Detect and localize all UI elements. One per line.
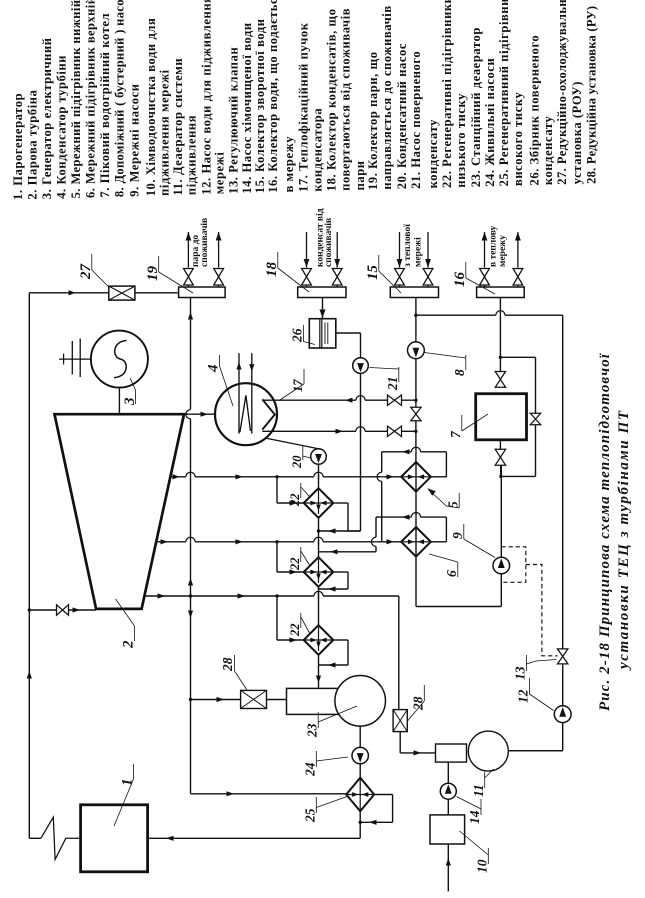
hop hat6 left over ext2: [374, 537, 378, 546]
RPNT1 inner arrow: [318, 490, 320, 514]
svg-text:в теплову: в теплову: [489, 225, 499, 267]
collector 15 return water: [390, 287, 438, 298]
svg-text:25: 25: [303, 808, 318, 823]
junction bundle top: [414, 399, 417, 402]
boiler7 bypass: [500, 356, 535, 358]
generator terminal line: [59, 358, 91, 360]
svg-text:22: 22: [288, 494, 302, 508]
svg-text:2: 2: [121, 640, 137, 649]
wire drain return line1: [319, 530, 361, 532]
wire ext2 branch to RPNT2: [276, 542, 278, 572]
hop hat5 over main line: [411, 450, 420, 454]
RPNT heater 22 no2: [304, 557, 334, 587]
svg-text:конденсату: конденсату: [426, 119, 440, 189]
svg-text:підживлення: підживлення: [184, 115, 198, 195]
pump 14 chem water pump: [440, 783, 456, 799]
junction ext1 branch: [275, 475, 278, 478]
hop ext1 over steam line: [186, 475, 195, 479]
junction main steam to turbine: [28, 608, 31, 611]
wire ext3 down to RU28b: [398, 596, 400, 710]
wire RPVT to boiler feed: [359, 811, 361, 838]
svg-text:конденсату: конденсату: [541, 116, 555, 186]
svg-text:з теплової: з теплової: [403, 224, 413, 267]
wire turbine inlet line: [29, 609, 96, 611]
wire collector15 drop: [415, 298, 417, 343]
svg-text:споживачів: споживачів: [199, 218, 210, 267]
svg-text:направляється до споживачів: направляється до споживачів: [380, 5, 394, 189]
svg-text:8. Допоміжний ( бустерний ) на: 8. Допоміжний ( бустерний ) насос: [112, 0, 126, 197]
svg-text:14. Насос хімочищеної води: 14. Насос хімочищеної води: [240, 22, 254, 193]
hop bundle top over pump21 line: [356, 398, 365, 402]
wire boiler outlet with zigzag: [29, 837, 41, 839]
svg-text:21. Насос поверненого: 21. Насос поверненого: [409, 51, 423, 189]
wire steam to ROU: [29, 292, 109, 294]
RPNT2 inner arrow: [318, 559, 320, 583]
XBO 10 water treatment: [430, 815, 465, 844]
pump 21 returned condensate pump: [353, 358, 369, 374]
svg-text:8: 8: [452, 369, 467, 376]
svg-text:конденсатора: конденсатора: [310, 108, 324, 192]
svg-text:10: 10: [475, 859, 490, 873]
deaerator 11 tank: [436, 744, 467, 762]
generator plus tick: [63, 354, 65, 365]
svg-text:15. Колектор зворотної води: 15. Колектор зворотної води: [253, 18, 267, 193]
svg-text:низького тиску: низького тиску: [454, 93, 468, 188]
deaerator 23 tank: [287, 688, 345, 714]
svg-text:13. Регулюючий клапан: 13. Регулюючий клапан: [227, 47, 241, 194]
wire steam branch to RU28a: [191, 699, 241, 701]
svg-text:пари: пари: [353, 160, 367, 190]
svg-text:22: 22: [288, 558, 302, 572]
wire RU28b to deaerator11: [399, 732, 401, 753]
svg-text:27. Редукційно-охолоджувальна: 27. Редукційно-охолоджувальна: [555, 0, 569, 185]
svg-text:28: 28: [220, 657, 235, 672]
svg-text:6. Мережний підігрівник верхні: 6. Мережний підігрівник верхній: [83, 0, 97, 198]
valve main heater line: [411, 407, 421, 414]
RPNT heater 22 no1: [304, 488, 334, 518]
heater5 hat loop: [382, 451, 447, 453]
wire RU28a to deaerator: [267, 699, 287, 701]
hop steam line over exhaust: [189, 410, 193, 419]
RPNT3 drain loop: [334, 639, 348, 641]
network heater 5: [401, 462, 431, 492]
condenser cooling water lines: [238, 353, 240, 433]
svg-text:17. Теплофікаційний пучок: 17. Теплофікаційний пучок: [296, 22, 310, 192]
pump 9 network pumps: [493, 557, 510, 574]
RPNT3 inner arrow: [318, 627, 320, 651]
deaerator 11 dome: [468, 731, 508, 771]
hop ext1 over condensate line: [314, 475, 323, 479]
wire ext1 branch to RPNT1: [276, 477, 278, 503]
svg-text:18. Колектор конденсатів, що: 18. Колектор конденсатів, що: [325, 8, 339, 191]
dashed line pump9 to valve13: [526, 565, 558, 656]
svg-text:24: 24: [303, 762, 318, 777]
svg-text:26: 26: [290, 328, 305, 343]
generator 3 circle: [91, 331, 148, 388]
junction makeup: [414, 314, 417, 317]
peak boiler 7: [476, 394, 527, 440]
wire boiler7 to pump9: [499, 440, 501, 450]
pump 12 makeup pump: [554, 706, 571, 723]
svg-text:12: 12: [516, 689, 531, 703]
svg-text:підживлення мережі: підживлення мережі: [157, 69, 171, 196]
svg-text:24. Живильні насоси: 24. Живильні насоси: [483, 58, 497, 187]
pump 24 feed pumps: [352, 747, 368, 763]
junction extraction3: [189, 594, 192, 597]
svg-text:установка (РОУ): установка (РОУ): [570, 81, 584, 184]
collector 18 condensate from consumers: [298, 287, 346, 298]
wire collector16 drop: [499, 298, 501, 372]
RPNT2 drain loop: [334, 571, 348, 573]
svg-text:22: 22: [288, 624, 302, 638]
wire bundle top line: [262, 399, 416, 401]
svg-text:23: 23: [305, 723, 320, 738]
wire extraction 1: [170, 476, 401, 478]
svg-text:22. Регенеративні підігрівники: 22. Регенеративні підігрівники: [440, 0, 454, 188]
svg-text:17: 17: [291, 379, 305, 392]
svg-text:14: 14: [467, 810, 482, 824]
valve below boiler7: [495, 449, 505, 457]
wire raw water inlet: [447, 844, 449, 891]
wire main steam riser from boiler to ROU: [28, 293, 30, 839]
svg-text:повертаються від споживачів: повертаються від споживачів: [339, 8, 353, 191]
svg-text:16. Колектор води, що подаєтьс: 16. Колектор води, що подається: [266, 0, 280, 193]
RPNT heater 22 no3: [304, 625, 334, 655]
wire condensate line from condenser: [265, 438, 319, 449]
network heater 6: [401, 527, 431, 557]
svg-text:20. Конденсатний насос: 20. Конденсатний насос: [395, 43, 409, 189]
tank 26 returned condensate: [309, 319, 336, 348]
svg-text:9. Мережні насоси: 9. Мережні насоси: [127, 83, 141, 196]
wire heater6 to pump9: [415, 527, 417, 607]
wire makeup line: [416, 314, 563, 316]
valve on turbine inlet: [57, 605, 63, 615]
turbine 2 trapezoid: [55, 414, 185, 609]
heater6 hat loop: [376, 516, 446, 518]
valve on bundle top line: [388, 395, 395, 405]
junction bypass bottom: [499, 475, 502, 478]
valve on bundle bottom line: [388, 426, 395, 436]
wire deaerator11 outlet: [508, 750, 562, 752]
wire condensate string: [318, 464, 320, 487]
wire collector18 to tank: [322, 298, 324, 319]
wire pump14 to XBO: [447, 799, 449, 815]
wire ext3 branch to RPNT3: [276, 596, 278, 640]
wire pump21 down: [360, 373, 362, 531]
junction bypass top: [499, 356, 502, 359]
wire tank outlet: [336, 332, 361, 334]
svg-text:2. Парова турбіна: 2. Парова турбіна: [25, 89, 39, 199]
svg-text:10. Хімводоочистка води для: 10. Хімводоочистка води для: [144, 18, 158, 197]
svg-text:19. Колектор пари, що: 19. Колектор пари, що: [366, 51, 380, 190]
svg-text:6: 6: [444, 570, 459, 577]
wire valve13 to pump12: [562, 664, 564, 706]
condenser heating bundle 17 chevron: [262, 399, 275, 429]
generator brush bar 1: [79, 339, 81, 378]
valve 13 regulating: [558, 649, 568, 657]
svg-text:26. Збірник поверненого: 26. Збірник поверненого: [527, 35, 541, 186]
svg-text:4. Конденсатор турбіни: 4. Конденсатор турбіни: [54, 55, 68, 199]
svg-text:високого тиску: високого тиску: [511, 92, 525, 186]
collector 16 supply water: [477, 287, 525, 298]
wire makeup riser: [562, 315, 564, 649]
hop ext3 over condensate line: [314, 594, 323, 598]
ROU 27 reducing-cooling unit: [109, 286, 135, 300]
wire heater drains line: [319, 551, 377, 553]
svg-text:Рис. 2-18 Принципова схема теп: Рис. 2-18 Принципова схема теплопідготов…: [597, 353, 613, 711]
wire pump12 to deaerator11: [562, 723, 564, 751]
junction RU branch: [189, 698, 192, 701]
wire pump8 down: [415, 359, 417, 462]
hop hat6 over main line: [411, 515, 420, 519]
RU 28b reducing unit: [393, 710, 407, 732]
wire bundle bottom line: [262, 430, 416, 432]
RPVT heater 25: [346, 778, 374, 812]
wire deaerator to pump24: [359, 726, 361, 747]
wire deaerator11 to pump14: [447, 762, 449, 783]
svg-text:в мережу: в мережу: [282, 136, 296, 193]
wire between heaters: [415, 462, 417, 527]
wire ROU to collector19: [135, 292, 179, 294]
generator sine symbol: [114, 341, 127, 378]
junction bundle bottom: [414, 430, 417, 433]
svg-text:11: 11: [471, 784, 486, 797]
junction RPVT drain: [359, 821, 362, 824]
svg-text:5. Мережний підігрівник нижній: 5. Мережний підігрівник нижній: [69, 0, 83, 198]
pump9 dashed enclosure: [502, 547, 526, 583]
wire collector19 steam line vertical: [190, 298, 192, 597]
svg-text:мережі: мережі: [412, 237, 423, 267]
hop hat5 left over ext1: [380, 472, 384, 481]
junction ext3 branch: [275, 594, 278, 597]
condenser 4 circle: [215, 383, 277, 445]
hop ext2 over steam line: [186, 540, 195, 544]
svg-text:9: 9: [450, 532, 465, 539]
svg-text:мережу: мережу: [498, 235, 508, 267]
RPVT drain loop: [374, 794, 392, 796]
svg-text:7. Піковий водогрійний котел: 7. Піковий водогрійний котел: [98, 13, 112, 198]
svg-text:11. Деаератор системи: 11. Деаератор системи: [171, 58, 185, 196]
wire pump9 riser: [500, 574, 502, 607]
deaerator 23 dome: [335, 676, 386, 727]
RPNT1 drain loop: [334, 502, 348, 504]
pump 8 booster pump: [408, 342, 425, 359]
collector 19 steam to consumers: [179, 287, 226, 298]
wire extraction 3: [144, 595, 398, 597]
boiler (steam generator) 1: [81, 805, 148, 872]
pump 20 condensate pump: [311, 449, 327, 465]
svg-text:споживачів: споживачів: [323, 218, 334, 267]
generator shaft link: [118, 388, 120, 415]
svg-text:1. Парогенератор: 1. Парогенератор: [11, 93, 25, 200]
valve above boiler7: [495, 372, 505, 380]
generator brush bar 2: [71, 341, 73, 375]
svg-text:13: 13: [513, 666, 528, 680]
svg-text:28. Редукційна установка (РУ): 28. Редукційна установка (РУ): [584, 6, 598, 184]
svg-text:3. Генератор електричний: 3. Генератор електричний: [40, 37, 54, 199]
hop bundle bottom over pump21 line: [356, 429, 365, 433]
hop ext2 over condensate line: [314, 540, 323, 544]
junction drain1: [317, 529, 320, 532]
RU 28a reducing unit: [241, 690, 267, 708]
svg-text:12. Насос води для підживлення: 12. Насос води для підживлення: [199, 0, 213, 195]
hop makeup over collector16 drop: [496, 313, 505, 317]
svg-text:25. Регенеративний підігрівник: 25. Регенеративний підігрівник: [497, 0, 511, 186]
junction ext2 branch: [275, 540, 278, 543]
svg-text:23. Станційний деаератор: 23. Станційний деаератор: [469, 27, 483, 187]
svg-text:21: 21: [385, 377, 400, 392]
wire steam to RPVT: [191, 793, 347, 795]
svg-text:20: 20: [290, 455, 304, 469]
wire pump24 to RPVT: [359, 764, 361, 779]
wire turbine exhaust to condenser: [184, 413, 216, 415]
wire extraction 2: [156, 541, 401, 543]
svg-text:мережі: мережі: [213, 152, 227, 195]
svg-text:установки ТЕЦ з турбінами ПТ: установки ТЕЦ з турбінами ПТ: [616, 409, 632, 671]
